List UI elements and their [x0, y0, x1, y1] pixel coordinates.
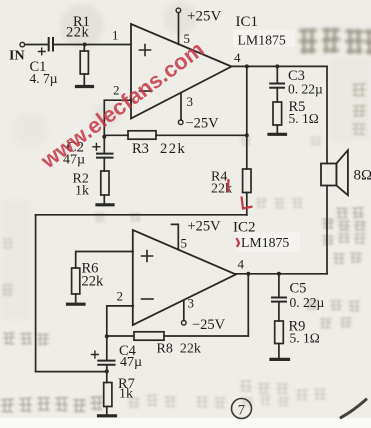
svg-text:22k: 22k [82, 274, 105, 290]
resistor R2 [101, 159, 109, 204]
wire C1 to pin 1 [54, 44, 131, 46]
node output/feedback junction [245, 64, 249, 68]
node +25V terminal IC1 [176, 8, 181, 13]
op-amp IC2 minus input mark [142, 298, 154, 300]
resistor R5 [273, 102, 282, 133]
svg-text:R3: R3 [132, 141, 149, 157]
bleed-through stains [299, 28, 371, 54]
ground (R7) [99, 414, 116, 417]
resistor R8 [107, 332, 249, 340]
resistor R4 [243, 169, 251, 215]
svg-text:5. 1Ω: 5. 1Ω [290, 331, 320, 346]
red hook below R4 [242, 197, 253, 209]
svg-text:5. 1Ω: 5. 1Ω [289, 111, 319, 126]
svg-text:47µ: 47µ [120, 355, 142, 370]
resistor R9 [275, 321, 284, 358]
capacitor C5 [272, 274, 286, 321]
svg-text:4. 7µ: 4. 7µ [30, 71, 58, 86]
resistor R3 [104, 131, 247, 139]
node R3/R4 junction [245, 133, 249, 137]
svg-text:4: 4 [238, 257, 245, 272]
svg-text:5: 5 [181, 236, 188, 251]
capacitor C1 [39, 38, 54, 55]
svg-text:+25V: +25V [187, 9, 221, 25]
svg-text:4: 4 [234, 50, 241, 65]
wire bottom to C4/R7 node [36, 371, 107, 373]
ground (R9) [271, 358, 289, 361]
light scan patches [233, 30, 295, 47]
wire speaker to IC2 output [326, 186, 328, 274]
ground (R5) [269, 133, 286, 136]
speaker LS [321, 150, 348, 195]
svg-text:0. 22µ: 0. 22µ [288, 82, 323, 97]
node IC2 output/feedback junction [246, 272, 250, 276]
node IN terminal [20, 42, 25, 47]
watermark www.elecfans.com [35, 36, 208, 173]
op-amp IC2 [133, 230, 236, 325]
wire pin 2 IC2 to feedback node [107, 306, 134, 336]
wire R4 bottom to left column [36, 214, 247, 216]
svg-text:−25V: −25V [192, 317, 226, 333]
red pen marks [228, 179, 253, 247]
wire IN to C1 [25, 44, 48, 46]
wire feedback column to R4 [246, 66, 248, 169]
svg-text:3: 3 [188, 296, 195, 311]
ground (R6) [68, 303, 85, 306]
svg-text:7: 7 [238, 403, 245, 419]
svg-text:−25V: −25V [186, 116, 220, 132]
node output/zobel junction [275, 64, 279, 68]
wire pin 2 IC1 to feedback node [104, 100, 131, 135]
resistor R6 [72, 268, 80, 303]
wire pin 5 IC2 to +25V stub [172, 224, 179, 249]
ground (R2) [97, 203, 113, 206]
svg-text:IC2: IC2 [233, 220, 256, 236]
wire output to speaker [326, 66, 328, 163]
op-amp IC2 plus input mark [142, 251, 153, 262]
pen stroke bottom right [341, 400, 366, 418]
node feedback junction IC1 [102, 135, 106, 139]
wire pin 3 IC2 to -25V [183, 300, 185, 320]
svg-text:LM1875: LM1875 [238, 33, 286, 48]
ground (R1) [77, 85, 93, 88]
svg-text:22k: 22k [66, 25, 90, 41]
wire IC2 output [236, 273, 327, 275]
wire left column down [35, 215, 37, 372]
svg-text:1k: 1k [75, 184, 89, 199]
red comma before LM1875 IC2 [237, 238, 240, 247]
svg-text:22k: 22k [160, 141, 186, 157]
wire pin 3 IC1 to -25V [180, 93, 182, 120]
op-amp IC1 minus input mark [140, 90, 152, 92]
op-amp IC1 plus input mark [140, 45, 151, 56]
capacitor C3 [270, 66, 284, 102]
page number 7 [232, 399, 252, 419]
wire R8 to IC2 output [247, 274, 249, 336]
wire IC1 output [232, 65, 328, 67]
svg-text:1k: 1k [119, 387, 133, 402]
svg-text:1: 1 [112, 28, 119, 43]
svg-text:3: 3 [187, 94, 194, 109]
red tick over R4 label [227, 179, 230, 193]
svg-text:IC1: IC1 [236, 14, 259, 30]
resistor R1 [80, 45, 88, 86]
node feedback junction IC2 [105, 334, 109, 338]
svg-text:R8 22k: R8 22k [157, 342, 201, 357]
svg-text:0. 22µ: 0. 22µ [290, 295, 325, 310]
svg-text:8Ω: 8Ω [354, 168, 371, 184]
node input junction [83, 43, 87, 47]
node C4/R7/wire junction [105, 369, 109, 373]
capacitor C4 [92, 336, 115, 365]
node IC2 output/zobel junction [277, 272, 281, 276]
node -25V terminal IC2 [182, 320, 187, 325]
capacitor C2 [93, 138, 113, 158]
svg-text:IN: IN [9, 49, 25, 64]
svg-text:2: 2 [117, 289, 124, 304]
resistor R7 [104, 366, 112, 415]
node -25V terminal IC1 [178, 120, 183, 125]
wire pin 5 IC1 to +25V [178, 13, 180, 45]
op-amp IC1 [131, 24, 232, 119]
wire pin 1 IC2 to R6 [76, 252, 133, 269]
svg-text:+25V: +25V [188, 219, 222, 235]
svg-text:LM1875: LM1875 [241, 235, 289, 250]
